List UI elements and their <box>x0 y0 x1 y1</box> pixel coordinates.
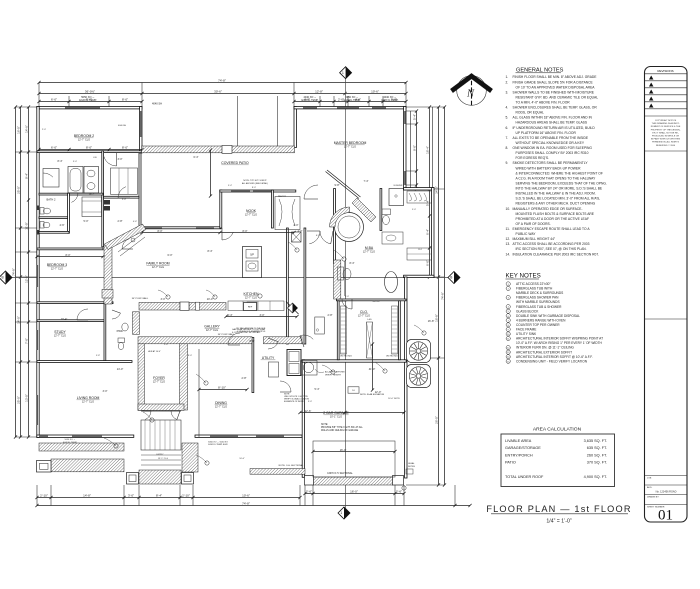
svg-text:FIBERGLASS SHOWER PAN: FIBERGLASS SHOWER PAN <box>516 296 559 300</box>
bottom dimension lines <box>37 497 300 499</box>
dining dim <box>199 389 247 391</box>
foyer entry columns hatch <box>102 290 113 299</box>
svg-text:& INTERCONNECTED: WHERE THE HI: & INTERCONNECTED: WHERE THE HIGHEST POIN… <box>516 171 603 175</box>
svg-text:NOTES: NOTES <box>408 466 416 468</box>
svg-text:COVERED PATIO: COVERED PATIO <box>221 161 249 165</box>
gallery south hatched band <box>138 337 252 344</box>
svg-text:WITH MARBLE SURROUNDS: WITH MARBLE SURROUNDS <box>516 300 560 304</box>
svg-text:8’-0”: 8’-0” <box>188 355 192 357</box>
svg-text:NOTE: O.H. SECTIONAL: NOTE: O.H. SECTIONAL <box>279 464 305 467</box>
svg-text:10’-6”: 10’-6” <box>371 89 379 93</box>
svg-text:EGR FL TEMP.: EGR FL TEMP. <box>79 98 97 102</box>
bath2 tub <box>68 167 83 194</box>
svg-text:4040 SH: 4040 SH <box>152 102 162 106</box>
svg-text:NOTE:: NOTE: <box>321 424 328 426</box>
svg-text:3’-0”: 3’-0” <box>160 298 165 301</box>
svg-text:A CL’G. IN A ROOM THAT OPENS T: A CL’G. IN A ROOM THAT OPENS TO THE HALL… <box>516 176 597 180</box>
svg-text:CLO: CLO <box>418 249 423 251</box>
svg-text:MASTER BEDROOM: MASTER BEDROOM <box>334 141 367 145</box>
svg-text:FIBERGLASS TUB & SHOWER: FIBERGLASS TUB & SHOWER <box>516 305 562 309</box>
svg-text:4’-6”: 4’-6” <box>133 221 137 223</box>
svg-text:26’-0”: 26’-0” <box>434 416 438 424</box>
svg-text:DINING: DINING <box>215 401 227 405</box>
right bump closet shelves <box>407 191 432 203</box>
svg-text:16’-0”: 16’-0” <box>350 489 358 493</box>
pantry shelves <box>275 197 300 230</box>
master vanity sink left <box>343 269 351 280</box>
svg-text:INSTALLED IN THE HALLWAY & IN: INSTALLED IN THE HALLWAY & IN THE ADJ. R… <box>516 192 596 196</box>
bath window bars <box>37 206 39 211</box>
svg-text:12’-7” CLG: 12’-7” CLG <box>358 315 370 318</box>
refrigerator <box>244 303 257 311</box>
svg-text:2.: 2. <box>506 80 509 84</box>
svg-text:REGISTERS & ANY OTHER MECH. DU: REGISTERS & ANY OTHER MECH. DUCT OPENING <box>516 202 596 206</box>
svg-text:PANTRY: PANTRY <box>278 195 287 198</box>
svg-text:3’-0”: 3’-0” <box>128 493 134 497</box>
exterior walls <box>37 107 142 109</box>
svg-text:STUDY: STUDY <box>54 330 66 334</box>
svg-text:GARAGE/STORAGE: GARAGE/STORAGE <box>505 446 541 450</box>
svg-text:OF 10’ TO AN APPROVED WATER DI: OF 10’ TO AN APPROVED WATER DISPOSAL ARE… <box>516 85 596 89</box>
svg-text:MARBLE DECK & SURROUNDS: MARBLE DECK & SURROUNDS <box>516 291 563 295</box>
svg-text:3’-0”: 3’-0” <box>308 401 312 403</box>
svg-text:41’-0”: 41’-0” <box>369 368 376 371</box>
svg-text:1: 1 <box>340 511 342 515</box>
svg-text:8’-4”: 8’-4” <box>207 250 212 253</box>
svg-text:74’-8”: 74’-8” <box>242 501 250 505</box>
svg-text:M.SHWR: M.SHWR <box>394 185 403 187</box>
svg-text:CLO.: CLO. <box>360 310 368 314</box>
svg-text:GAS SLAB LEDGER TO DN. SLAB: GAS SLAB LEDGER TO DN. SLAB <box>232 328 265 331</box>
svg-text:16’-8”: 16’-8” <box>428 320 435 323</box>
svg-text:EGR FL TEMP. EGR: EGR FL TEMP. EGR <box>208 444 228 446</box>
svg-text:COPYRIGHT NOTICE: COPYRIGHT NOTICE <box>655 120 677 122</box>
svg-text:8.: 8. <box>506 146 509 150</box>
svg-text:12’-8”: 12’-8” <box>315 89 323 93</box>
svg-text:12’-7” CLG: 12’-7” CLG <box>153 381 165 384</box>
key notes list <box>506 282 603 364</box>
svg-text:ADD:: ADD: <box>647 486 653 489</box>
svg-text:14’-8”: 14’-8” <box>83 493 91 497</box>
svg-text:ARCHITECTURAL INTERIOR SOFFIT: ARCHITECTURAL INTERIOR SOFFIT @ 10’-6” A… <box>516 355 593 359</box>
condensing unit 1 <box>407 340 431 363</box>
master bath tub circle <box>335 213 364 242</box>
svg-text:2’-8”: 2’-8” <box>164 344 168 346</box>
svg-text:635 SQ. FT.: 635 SQ. FT. <box>587 446 607 450</box>
svg-text:ARCHITECTURAL INTERIOR SOFFIT: ARCHITECTURAL INTERIOR SOFFIT W/SPRING P… <box>516 337 603 341</box>
svg-text:FOYER: FOYER <box>153 376 165 380</box>
svg-text:WD HD R&S: WD HD R&S <box>340 356 352 358</box>
svg-text:RESISTANT GYP. BD. AND CERAMIC: RESISTANT GYP. BD. AND CERAMIC TILE OR E… <box>516 95 599 99</box>
svg-text:REVISIONS: REVISIONS <box>657 69 673 73</box>
svg-text:13’-0”: 13’-0” <box>24 394 28 402</box>
entry walk and steps <box>141 420 181 450</box>
svg-text:36” PONY WALL: 36” PONY WALL <box>132 297 149 300</box>
svg-text:EGR FL TEMP.: EGR FL TEMP. <box>63 442 77 444</box>
svg-text:10’-4”: 10’-4” <box>61 318 68 321</box>
svg-text:5050 XO ↔: 5050 XO ↔ <box>65 439 76 441</box>
svg-text:1: 1 <box>342 71 344 75</box>
covered patio north hatched band <box>142 146 295 153</box>
svg-text:14’-0”: 14’-0” <box>16 316 20 324</box>
patio band post gap <box>222 146 232 154</box>
entry double doors <box>145 411 151 420</box>
svg-text:UTILITY SINK: UTILITY SINK <box>516 332 537 336</box>
svg-text:6.: 6. <box>506 126 509 130</box>
svg-text:ATTIC ACCESS SHALL BE ACCORDIN: ATTIC ACCESS SHALL BE ACCORDING PER 2003 <box>513 242 590 246</box>
svg-text:ENTRY: ENTRY <box>156 454 164 456</box>
svg-text:1/4” = 1’-0”: 1/4” = 1’-0” <box>546 519 572 525</box>
svg-text:B: B <box>2 276 4 280</box>
svg-text:3,635 SQ. FT.: 3,635 SQ. FT. <box>584 439 607 443</box>
svg-text:5’-4”: 5’-4” <box>314 388 319 391</box>
svg-text:7’-0”: 7’-0” <box>24 338 28 344</box>
svg-text:8’-0”: 8’-0” <box>249 340 254 343</box>
svg-text:PERMISSION. ALL RIGHTS: PERMISSION. ALL RIGHTS <box>652 141 679 144</box>
svg-text:12’-7” CLG: 12’-7” CLG <box>78 139 90 142</box>
family room windows <box>144 227 162 228</box>
svg-text:16’-4”: 16’-4” <box>425 146 429 154</box>
svg-text:PATIO: PATIO <box>505 461 516 465</box>
svg-text:CONDENSING UNIT - FIELD VERIFY: CONDENSING UNIT - FIELD VERIFY LOCATION <box>516 359 588 363</box>
svg-text:34’-0”: 34’-0” <box>434 186 438 194</box>
svg-text:2’-6”: 2’-6” <box>306 489 312 493</box>
porch right section hatched <box>182 443 198 472</box>
svg-text:WD HD: WD HD <box>339 301 347 303</box>
bath2 closet <box>43 169 59 188</box>
svg-text:NOTE: TYP. EXT. SOFFIT: NOTE: TYP. EXT. SOFFIT <box>243 180 267 182</box>
utility sink in garage <box>301 361 318 376</box>
svg-text:5’-0”: 5’-0” <box>412 209 416 211</box>
utility washer dryer <box>287 350 301 376</box>
svg-text:ARCHITECTURAL EXTERIOR SOFFIT: ARCHITECTURAL EXTERIOR SOFFIT <box>516 350 572 354</box>
svg-text:AREA CALCULATION: AREA CALCULATION <box>533 427 582 433</box>
svg-text:EMERGENCY ESCAPE ROUTE SHALL L: EMERGENCY ESCAPE ROUTE SHALL LEAD TO A <box>513 227 591 231</box>
svg-text:PROPERTY OF THE DESIGN-: PROPERTY OF THE DESIGN- <box>651 129 681 131</box>
svg-text:S/P: S/P <box>250 253 254 256</box>
svg-text:IN PART WITHOUT WRITTEN: IN PART WITHOUT WRITTEN <box>651 138 681 141</box>
svg-text:16070 O.H. SECTIONAL: 16070 O.H. SECTIONAL <box>327 472 353 475</box>
svg-text:11.: 11. <box>506 227 510 231</box>
angled door at family room <box>118 233 143 252</box>
svg-text:10’-6”: 10’-6” <box>239 458 245 460</box>
svg-text:DRAWN BY:: DRAWN BY: <box>647 496 660 499</box>
svg-text:260 SQ. FT.: 260 SQ. FT. <box>587 453 607 457</box>
svg-text:TO A MIN. 4’-0” ABOVE FIN. FLO: TO A MIN. 4’-0” ABOVE FIN. FLOOR <box>516 101 571 105</box>
svg-text:12’-7” CLG: 12’-7” CLG <box>245 297 257 300</box>
svg-text:8’-4”: 8’-4” <box>349 262 354 265</box>
svg-text:8’-0”: 8’-0” <box>122 145 128 149</box>
svg-text:W.I.C.: W.I.C. <box>89 194 95 196</box>
svg-text:8’-0”: 8’-0” <box>86 145 92 149</box>
svg-text:6’-4”: 6’-4” <box>193 156 198 159</box>
svg-text:01: 01 <box>658 508 673 524</box>
svg-text:EGR FL TEMP.: EGR FL TEMP. <box>302 99 319 102</box>
svg-text:2’-10”: 2’-10” <box>182 493 190 497</box>
svg-text:12.: 12. <box>506 237 511 241</box>
svg-text:ALL EXITS TO BE OPENABLE FROM: ALL EXITS TO BE OPENABLE FROM THE INSIDE <box>513 136 589 140</box>
svg-text:WALLS AND CEILING OF GARAGE: WALLS AND CEILING OF GARAGE <box>321 429 359 432</box>
svg-text:MAXIMUM SILL HEIGHT 44”: MAXIMUM SILL HEIGHT 44” <box>513 237 556 241</box>
svg-text:ALL GLASS WITHIN 18” ABOVE FIN: ALL GLASS WITHIN 18” ABOVE FIN. FLOOR AN… <box>513 116 593 120</box>
svg-text:NOOK: NOOK <box>246 209 257 213</box>
kitchen gallery north hatched band <box>139 303 180 311</box>
master bath vanity oval <box>385 272 398 293</box>
garage north wall box <box>348 387 359 393</box>
svg-text:FIBERGLASS TUB WITH: FIBERGLASS TUB WITH <box>516 287 553 291</box>
svg-text:3.: 3. <box>506 90 509 94</box>
svg-text:FLOOR PLAN — 1st FLOOR: FLOOR PLAN — 1st FLOOR <box>486 504 631 514</box>
svg-text:4,900 SQ. FT.: 4,900 SQ. FT. <box>584 475 607 479</box>
svg-text:MOUNTED FLUSH BOLTS & SURFACE: MOUNTED FLUSH BOLTS & SURFACE BOLTS ARE <box>516 212 595 216</box>
svg-text:WIRED WITH BATTERY BACK-UP POW: WIRED WITH BATTERY BACK-UP POWER <box>516 166 582 170</box>
svg-text:12’-7” CLG: 12’-7” CLG <box>54 335 66 338</box>
svg-text:6’-4”: 6’-4” <box>425 229 429 235</box>
master vanity counters <box>382 232 403 244</box>
svg-text:8’-0”: 8’-0” <box>252 187 256 189</box>
svg-text:M.BA: M.BA <box>365 246 374 250</box>
svg-text:12’-0”: 12’-0” <box>375 391 382 394</box>
bath cluster partitions <box>39 193 103 195</box>
svg-text:74’-8”: 74’-8” <box>11 268 15 276</box>
svg-text:LIVABLE AREA: LIVABLE AREA <box>505 439 532 443</box>
vertical grid line with diamond markers <box>345 79 347 508</box>
svg-text:12’-7” CLG: 12’-7” CLG <box>215 406 227 409</box>
svg-text:4’-6”: 4’-6” <box>59 224 64 227</box>
svg-text:IF UNDERGROUND RETURN AIR IS U: IF UNDERGROUND RETURN AIR IS UTILIZED, B… <box>513 126 596 130</box>
master bath left vanity box <box>338 267 344 280</box>
svg-text:74’-8”: 74’-8” <box>218 78 226 82</box>
svg-text:5’-0”: 5’-0” <box>83 220 88 223</box>
svg-text:8’-0”: 8’-0” <box>122 97 128 101</box>
svg-text:OF A PAIR OF DOORS.: OF A PAIR OF DOORS. <box>516 222 551 226</box>
master bath hatched wall <box>334 260 341 299</box>
svg-text:10’-1” CLG: 10’-1” CLG <box>330 416 342 419</box>
svg-text:12’-0”: 12’-0” <box>24 275 28 283</box>
svg-text:S.D.’S SHALL BE LOCATED MIN. 3: S.D.’S SHALL BE LOCATED MIN. 3’-0” FROM … <box>516 197 601 201</box>
svg-text:14’-6”: 14’-6” <box>24 125 28 133</box>
svg-text:PROVIDE 5/8” TYPE X GYP. BD. A: PROVIDE 5/8” TYPE X GYP. BD. AT ALL <box>321 426 364 429</box>
svg-text:10.: 10. <box>506 207 511 211</box>
title block frame <box>645 67 688 524</box>
svg-text:SHOWER WALLS TO BE FINISHED WI: SHOWER WALLS TO BE FINISHED WITH MOISTUR… <box>513 90 595 94</box>
svg-text:MANUALLY OPERATED EDGE OR SURF: MANUALLY OPERATED EDGE OR SURFACE- <box>513 207 583 211</box>
svg-text:SHOWER ENCLOSURES SHALL BE TEM: SHOWER ENCLOSURES SHALL BE TEMP. GLASS, … <box>513 106 598 110</box>
svg-text:RODS, OR EQUAL: RODS, OR EQUAL <box>516 111 545 115</box>
svg-text:SMOKE DETECTORS SHALL BE PERMA: SMOKE DETECTORS SHALL BE PERMANENTLY <box>513 161 589 165</box>
left wall windows <box>37 265 38 287</box>
interior dim lines <box>39 149 142 151</box>
svg-text:2’-8”: 2’-8” <box>327 314 332 317</box>
bath3 sink <box>40 222 44 229</box>
svg-text:10’-0”: 10’-0” <box>207 298 214 301</box>
svg-text:REF: REF <box>248 307 253 309</box>
svg-text:16’-0”: 16’-0” <box>16 126 20 134</box>
kitchen dw under counter <box>247 302 257 310</box>
svg-text:RESERVED © 2004: RESERVED © 2004 <box>656 144 676 147</box>
north arrow <box>450 73 492 107</box>
svg-text:3’-0”: 3’-0” <box>117 158 122 161</box>
svg-text:2’-6”: 2’-6” <box>396 489 402 493</box>
svg-text:74’-8”: 74’-8” <box>440 292 444 300</box>
master bedroom angled wall <box>326 172 360 199</box>
svg-text:GALLERY: GALLERY <box>204 325 220 329</box>
foyer hatched walls <box>138 344 144 411</box>
master bath entry diagonal hatch <box>352 198 376 222</box>
front porch hatched band <box>39 443 124 451</box>
bath2 double sinks <box>84 167 99 194</box>
svg-text:1.: 1. <box>506 75 509 79</box>
exterior windows <box>65 107 100 108</box>
svg-text:SERVING THE BEDROOM, EXCEEDS T: SERVING THE BEDROOM, EXCEEDS THAT OF THE… <box>516 181 607 185</box>
sheet title <box>486 504 631 525</box>
bath3 toilet <box>40 208 44 215</box>
svg-text:COUNTER TOP PER OWNER: COUNTER TOP PER OWNER <box>516 323 560 327</box>
kitchen island <box>243 247 262 278</box>
svg-text:5.: 5. <box>506 116 509 120</box>
svg-text:LIN.: LIN. <box>93 157 97 159</box>
svg-text:12’-7” CLG: 12’-7” CLG <box>344 146 356 149</box>
svg-text:25’-0”: 25’-0” <box>16 186 20 194</box>
water heater box <box>315 317 325 334</box>
interior walls <box>37 151 142 153</box>
svg-text:13.: 13. <box>506 242 511 246</box>
svg-text:2’-8”: 2’-8” <box>117 220 122 223</box>
svg-text:INTERIOR FURR DN. @ 11’-1” CEI: INTERIOR FURR DN. @ 11’-1” CEILING <box>516 346 574 350</box>
left dimension lines <box>15 107 17 437</box>
powder hatched wall <box>133 312 140 335</box>
svg-text:16’-8”: 16’-8” <box>434 314 438 322</box>
svg-text:RUMENT OF SERVICE & THE: RUMENT OF SERVICE & THE <box>651 126 681 128</box>
svg-text:DOUBLE SINK WITH GARBAGE DISPO: DOUBLE SINK WITH GARBAGE DISPOSAL <box>516 314 580 318</box>
svg-text:HDR AT 10’-0”: HDR AT 10’-0” <box>148 350 161 353</box>
top dimension lines <box>39 82 406 84</box>
svg-text:6’-0”: 6’-0” <box>51 97 57 101</box>
svg-text:12’-7” CLG: 12’-7” CLG <box>206 329 218 332</box>
svg-text:6’-0”: 6’-0” <box>51 145 57 149</box>
svg-text:FINISH FLOOR SHALL BE MIN. 8”: FINISH FLOOR SHALL BE MIN. 8” ABOVE ADJ.… <box>513 75 598 79</box>
svg-text:No. 123456 ROAD: No. 123456 ROAD <box>656 490 677 493</box>
leader lines <box>196 374 206 383</box>
svg-text:LIVING ROOM: LIVING ROOM <box>77 396 100 400</box>
nook windows <box>231 191 250 192</box>
svg-text:8’-4”: 8’-4” <box>156 493 162 497</box>
wardrobe rods and shelves <box>341 306 347 354</box>
rear patio south hatched band <box>250 469 305 475</box>
svg-text:7’-4”: 7’-4” <box>363 180 368 183</box>
svg-text:FACE FRAME: FACE FRAME <box>516 328 536 332</box>
svg-text:PROHIBITED AT A DOOR OR THE AC: PROHIBITED AT A DOOR OR THE ACTIVE LEAF <box>516 217 589 221</box>
svg-text:INTO THE HALLWAY BY 24” OR MOR: INTO THE HALLWAY BY 24” OR MORE, S.D.’S … <box>516 187 603 191</box>
svg-text:WITHOUT SPECIAL KNOWLEDGE OR A: WITHOUT SPECIAL KNOWLEDGE OR A KEY <box>516 141 585 145</box>
svg-text:25’-0”: 25’-0” <box>16 396 20 404</box>
fireplace diagonal wing <box>105 224 147 250</box>
svg-text:6’-0”: 6’-0” <box>167 254 172 257</box>
svg-text:PURPOSES SHALL COMPLY BY 2003: PURPOSES SHALL COMPLY BY 2003 IRC R310 <box>516 151 589 155</box>
right dimension lines <box>416 111 418 189</box>
svg-text:12’-7” CLG: 12’-7” CLG <box>82 401 94 404</box>
svg-text:4 BURNERS RANGE WITH OVEN: 4 BURNERS RANGE WITH OVEN <box>516 318 566 322</box>
svg-text:TOTAL UNDER ROOF: TOTAL UNDER ROOF <box>505 475 544 479</box>
svg-text:HAZARDOUS AREAS SHALL BE TEMP.: HAZARDOUS AREAS SHALL BE TEMP. GLASS <box>516 121 588 125</box>
svg-text:ATTIC ACCESS 22”x30”: ATTIC ACCESS 22”x30” <box>516 282 550 286</box>
svg-text:VERIFY HEIGHT: VERIFY HEIGHT <box>325 374 342 376</box>
svg-text:14.: 14. <box>506 252 511 256</box>
svg-text:ENTRY/PORCH: ENTRY/PORCH <box>505 453 533 457</box>
svg-text:5’-8”: 5’-8” <box>96 355 100 357</box>
svg-text:9.: 9. <box>506 161 509 165</box>
svg-text:3’-0”: 3’-0” <box>102 390 107 393</box>
garage door hatched apron <box>313 477 393 485</box>
svg-text:B: B <box>450 276 452 280</box>
svg-text:LEGAL: LEGAL <box>408 462 415 465</box>
svg-text:6’-8”: 6’-8” <box>316 235 320 237</box>
svg-text:N: N <box>466 89 475 100</box>
svg-text:13’-1” CLG: 13’-1” CLG <box>158 458 169 460</box>
svg-text:KEY NOTES: KEY NOTES <box>506 273 541 280</box>
svg-text:10’-6”: 10’-6” <box>242 493 250 497</box>
svg-text:4040 SH: 4040 SH <box>118 125 127 127</box>
garage interior slab <box>313 441 395 477</box>
svg-text:ALL AROUND (SEE DETAIL): ALL AROUND (SEE DETAIL) <box>242 182 268 185</box>
svg-text:INSULATION CLEARANCE PER 2003: INSULATION CLEARANCE PER 2003 IRC SECTIO… <box>513 252 600 256</box>
svg-text:WD HD R&S: WD HD R&S <box>386 356 398 358</box>
kitchen appliance x-box <box>292 232 302 242</box>
svg-text:9’-0”: 9’-0” <box>412 145 416 151</box>
svg-text:11’-0”: 11’-0” <box>24 222 28 229</box>
svg-text:PWD.: PWD. <box>117 329 124 333</box>
svg-text:2’-0”: 2’-0” <box>293 224 298 227</box>
svg-text:IRC SECTION R07, SEE 07, @ ON: IRC SECTION R07, SEE 07, @ ON THIS PLAN. <box>516 247 587 251</box>
svg-text:FAMILY ROOM: FAMILY ROOM <box>146 262 169 266</box>
svg-text:9’-0”: 9’-0” <box>345 296 349 298</box>
svg-text:FINISH GRADE SHALL SLOPE 5% FO: FINISH GRADE SHALL SLOPE 5% FOR A DISTAN… <box>513 80 594 84</box>
powder sink <box>122 323 128 331</box>
kitchen south counters <box>228 301 284 311</box>
general notes list <box>506 75 607 256</box>
svg-text:WD HD: WD HD <box>372 301 380 303</box>
svg-text:12’-7” CLG: 12’-7” CLG <box>51 268 63 271</box>
svg-text:5’-0”: 5’-0” <box>122 199 126 201</box>
svg-text:L&S: L&S <box>367 319 372 321</box>
svg-text:BEDROOM 2: BEDROOM 2 <box>74 134 94 138</box>
master bath toilet <box>382 209 391 215</box>
svg-text:FOR EGRESS REQ’S.: FOR EGRESS REQ’S. <box>516 156 550 160</box>
svg-text:ELEMENTS OF WORK: ELEMENTS OF WORK <box>284 401 304 403</box>
svg-text:ER. IT SHALL NOT BE RE-: ER. IT SHALL NOT BE RE- <box>652 131 678 134</box>
svg-text:2’-8”: 2’-8” <box>241 377 246 380</box>
svg-text:KITCHEN: KITCHEN <box>244 292 259 296</box>
svg-text:8’-4”: 8’-4” <box>57 160 62 163</box>
svg-text:36’-0½”: 36’-0½” <box>85 89 95 93</box>
svg-text:ONE WINDOW IN EA. ROOM USED FO: ONE WINDOW IN EA. ROOM USED FOR SLEEPING <box>513 146 593 150</box>
horizontal grid line with diamond marker <box>8 277 448 279</box>
svg-text:PRODUCED IN WHOLE OR: PRODUCED IN WHOLE OR <box>652 136 680 138</box>
kitchen SE canted corner <box>286 302 299 315</box>
svg-text:2’-0”: 2’-0” <box>42 129 46 131</box>
svg-text:370 SQ. FT.: 370 SQ. FT. <box>587 461 607 465</box>
condensing unit 2 <box>407 365 431 388</box>
svg-text:7.: 7. <box>506 136 509 140</box>
master bath shower <box>389 189 404 206</box>
svg-text:BATH 2: BATH 2 <box>47 198 56 202</box>
powder toilet <box>118 338 125 343</box>
floor plan drawing <box>0 67 472 519</box>
svg-text:12’-7” CLG: 12’-7” CLG <box>245 214 257 217</box>
svg-text:BEDROOM 3: BEDROOM 3 <box>47 263 67 267</box>
svg-text:4’-0”: 4’-0” <box>297 230 302 233</box>
svg-text:8’-10”: 8’-10” <box>218 385 226 389</box>
